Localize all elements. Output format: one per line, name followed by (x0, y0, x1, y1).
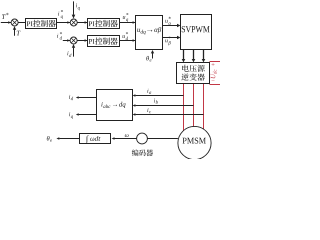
label + of DC bus (red) (212, 63, 215, 66)
wire S2 to PI2 (77, 22, 87, 24)
block PI controller U1 (speed) (26, 19, 57, 29)
wire theta_e output (59, 138, 79, 140)
block SVPWM modulator (181, 15, 212, 50)
label - of DC bus (red) (212, 80, 215, 82)
wire phase B (red) (193, 84, 195, 129)
label ud* voltage (122, 35, 124, 38)
label ia phase current (147, 89, 148, 93)
label iq* reference (58, 12, 59, 16)
wire id feedback (bottom) (73, 48, 75, 57)
wire encoder to integrator (115, 138, 137, 140)
label id* reference (57, 34, 58, 38)
wire S3 to PI3 (77, 40, 87, 42)
label u_alpha* voltage (165, 20, 167, 23)
label id output (69, 95, 70, 99)
wire phase A (red) (183, 84, 185, 133)
summing junction S1 (11, 19, 18, 26)
wire ib tap (135, 105, 193, 107)
label encoder (bianmaqi) (132, 149, 139, 156)
wire iq feedback (top) (73, 1, 75, 14)
wire PI3 to transform (120, 40, 136, 42)
label iq feedback (top) (76, 3, 77, 7)
label id feedback (bottom) (67, 51, 68, 55)
label T* reference input (2, 15, 6, 19)
summing junction S2 (70, 19, 77, 26)
block voltage source inverter (177, 63, 210, 84)
wire DC- rail (red) (210, 84, 221, 86)
block inverse Park transform u_dq to alpha-beta (136, 16, 163, 50)
wire phase C (red) (203, 84, 205, 132)
wire id output (79, 97, 97, 99)
wire PI1 to S2 (57, 22, 71, 24)
wire S1 to PI1 (18, 22, 25, 24)
wire PMSM to encoder (147, 138, 178, 140)
label theta_e rotor angle input (146, 56, 149, 61)
wire u_alpha to SVPWM (163, 25, 178, 27)
label ib phase current (154, 99, 155, 103)
wire ic tap (135, 114, 203, 116)
block PI controller U3 (d-axis current) (88, 36, 120, 47)
block integrator theta=int(omega)dt (80, 134, 111, 144)
wire PI2 to transform (120, 22, 136, 24)
block PI controller U2 (q-axis current) (88, 19, 120, 29)
wire SVPWM gate signal 1 (183, 50, 185, 60)
wire id* input (63, 40, 70, 42)
summing junction S3 (70, 37, 77, 44)
label u_beta* voltage (165, 39, 167, 42)
wire T feedback (14, 29, 16, 36)
block Clarke-Park transform i_abc to dq (97, 90, 133, 121)
wire ia tap (135, 95, 183, 97)
wire iq output (79, 114, 97, 116)
wire theta_e into transform (152, 53, 154, 59)
motor PMSM (178, 126, 211, 159)
wire SVPWM gate signal 3 (203, 50, 205, 60)
label iq output (69, 112, 70, 116)
wire T* input (1, 22, 11, 24)
wire DC+ rail (red) (210, 61, 221, 63)
label omega speed (125, 134, 129, 137)
label theta_e output (47, 136, 50, 141)
encoder circle (137, 133, 148, 144)
wire u_beta to SVPWM (163, 37, 178, 39)
label Udc rotated (red) (211, 69, 217, 78)
wire SVPWM gate signal 2 (193, 50, 195, 60)
label uq* voltage (123, 16, 125, 19)
label T feedback (17, 31, 21, 35)
label ic phase current (147, 108, 148, 112)
